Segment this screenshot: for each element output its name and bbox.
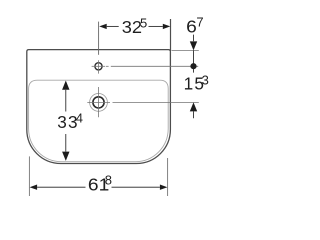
svg-text:32: 32 [122,18,142,37]
svg-text:8: 8 [105,173,112,188]
svg-text:3: 3 [202,72,209,87]
svg-text:7: 7 [196,15,203,30]
svg-text:5: 5 [140,15,147,30]
svg-text:4: 4 [76,110,83,125]
svg-text:6: 6 [186,17,197,37]
